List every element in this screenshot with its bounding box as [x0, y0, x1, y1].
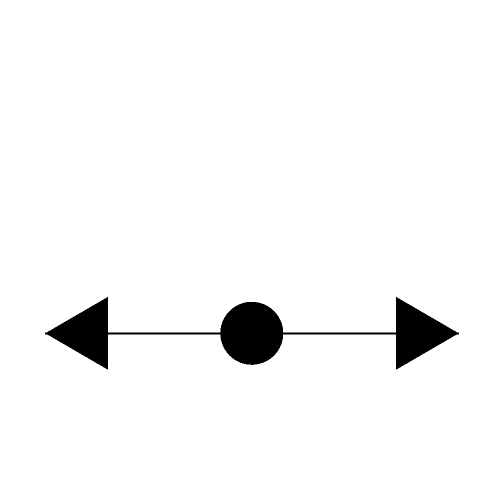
- node: [220, 302, 283, 365]
- right arrowhead: [396, 297, 459, 370]
- wire: [45, 333, 459, 335]
- left arrowhead: [45, 297, 108, 370]
